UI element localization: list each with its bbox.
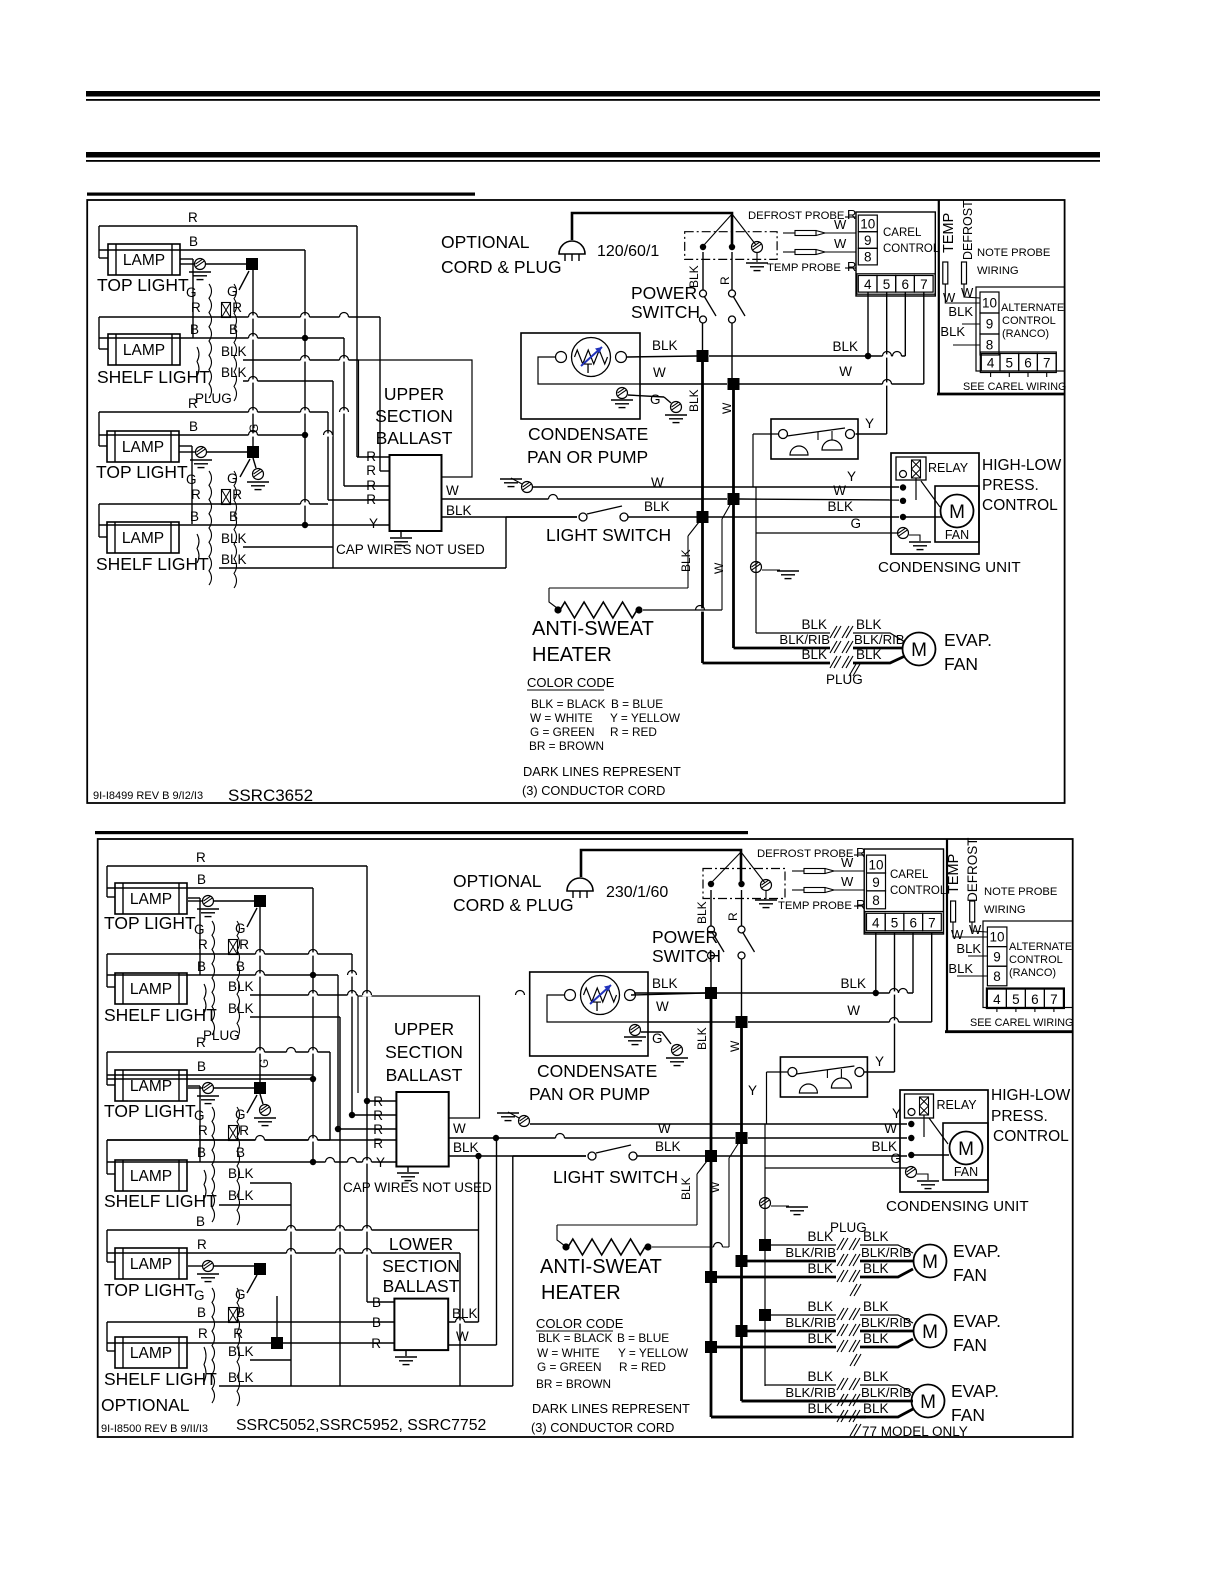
ground screw at lamp1: [180, 263, 194, 265]
svg-text:BLK: BLK: [221, 552, 247, 567]
cord wire from plug: [572, 213, 732, 244]
alt probe wires d2: [953, 922, 987, 937]
wire G diagonal lamp9: [247, 1275, 257, 1293]
lamp10 leads: [106, 1322, 108, 1351]
svg-text:10: 10: [989, 930, 1004, 945]
svg-text:CAP WIRES NOT USED: CAP WIRES NOT USED: [343, 1180, 492, 1195]
evap fan wire segments right: [860, 1315, 913, 1323]
junction square W light row: [728, 493, 740, 505]
svg-text:77 MODEL ONLY: 77 MODEL ONLY: [862, 1424, 968, 1439]
carel control box: [856, 212, 935, 296]
junction square G bus lower: [207, 451, 247, 453]
svg-text:PLUG: PLUG: [826, 672, 863, 687]
svg-text:BLK: BLK: [863, 1261, 889, 1276]
wire G bus vertical: [252, 270, 254, 446]
bracket lamp2 BLK leads: [197, 347, 199, 376]
svg-text:SECTION: SECTION: [375, 406, 453, 426]
svg-text:TEMP PROBE: TEMP PROBE: [767, 262, 841, 274]
heater right wire: [643, 609, 722, 611]
inset box note probe wiring d2: [946, 839, 948, 1032]
wire G diagonal from square d2: [247, 1095, 257, 1113]
wire Y row to condensing d2: [530, 1123, 907, 1125]
svg-text:BLK: BLK: [453, 1140, 479, 1155]
svg-text:5: 5: [883, 277, 891, 292]
cord W vertical to evap fan: [732, 390, 735, 648]
svg-text:SHELF LIGHT: SHELF LIGHT: [96, 554, 209, 574]
bracket lamp6 BLK leads: [204, 984, 206, 1013]
svg-text:DEFROST: DEFROST: [965, 837, 980, 902]
ground screw at lamp9: [188, 1265, 202, 1267]
svg-text:G: G: [194, 1108, 205, 1123]
svg-text:9: 9: [986, 317, 994, 332]
svg-text:SHELF LIGHT: SHELF LIGHT: [104, 1005, 217, 1025]
svg-text:BALLAST: BALLAST: [383, 1276, 460, 1296]
bracket lamp10 BLK leads: [204, 1347, 206, 1382]
wire BLK light switch row: [506, 516, 577, 518]
svg-text:WIRING: WIRING: [977, 265, 1019, 277]
svg-text:B: B: [197, 1145, 206, 1160]
lamp1 leads: [98, 226, 100, 258]
svg-text:BLK: BLK: [807, 1401, 833, 1416]
svg-text:W: W: [943, 290, 956, 305]
screw in dash-dot box d2: [761, 880, 772, 891]
svg-text:W: W: [712, 562, 726, 574]
svg-text:BR = BROWN: BR = BROWN: [529, 739, 604, 753]
cord plug symbol d2: [567, 878, 593, 891]
svg-text:BLK: BLK: [948, 961, 973, 976]
svg-text:Y: Y: [875, 1054, 884, 1069]
svg-text:B: B: [236, 959, 245, 974]
plug break marks: [837, 1378, 844, 1390]
screw below square d2: [260, 1094, 263, 1104]
junction square G bus top: [206, 263, 246, 265]
svg-text:7: 7: [920, 277, 928, 292]
plug wavy bracket pair1 right: [234, 284, 237, 401]
wire BLK3 vertical d2: [290, 1183, 292, 1386]
svg-text:BLK: BLK: [644, 499, 670, 514]
svg-text:PLUG: PLUG: [203, 1028, 240, 1043]
lamp L5 TOP LIGHT d2: [115, 883, 187, 914]
svg-text:5: 5: [891, 915, 899, 930]
temp probe element d2: [951, 901, 956, 922]
condensing fan motor M d2: [950, 1132, 983, 1165]
svg-text:BLK: BLK: [228, 979, 254, 994]
ballast U1 box: [390, 455, 442, 531]
carel terminals 4 5 6 7: [857, 274, 935, 294]
svg-text:R: R: [233, 1326, 243, 1341]
plug wavy bracket pair1 left: [209, 284, 212, 398]
power switch pole 2: [731, 252, 733, 290]
fuse symbol R lamp8: [229, 1126, 238, 1141]
svg-text:NOTE PROBE: NOTE PROBE: [977, 247, 1050, 259]
svg-text:FAN: FAN: [954, 1165, 978, 1179]
svg-text:TOP LIGHT: TOP LIGHT: [96, 462, 188, 482]
ground under dash-dot box d2: [765, 891, 767, 899]
svg-text:LAMP: LAMP: [123, 252, 165, 269]
svg-text:G: G: [186, 285, 197, 300]
condensing fan box d2: [943, 1123, 988, 1180]
evap fan motor: [903, 633, 936, 666]
anti-sweat heater element: [554, 606, 561, 613]
ballast U3 box: [394, 1299, 448, 1351]
svg-text:BLK/RIB: BLK/RIB: [861, 1245, 912, 1260]
wire carel-6 to BLK row d2: [912, 932, 914, 993]
wire G row to condensing: [756, 532, 899, 534]
wire BLK main row d2: [710, 959, 712, 987]
alternate control outline d2: [983, 921, 1073, 1008]
condensing ground screw: [898, 528, 909, 539]
svg-text:G: G: [247, 424, 261, 433]
alternate terminals 4 5 6 7 d2: [986, 988, 1064, 1009]
svg-text:B: B: [190, 509, 199, 524]
svg-text:6: 6: [909, 915, 917, 930]
svg-text:LAMP: LAMP: [122, 439, 164, 456]
svg-text:LIGHT SWITCH: LIGHT SWITCH: [553, 1167, 678, 1187]
svg-text:7: 7: [1043, 356, 1051, 371]
ground screw at lamp3: [179, 451, 195, 453]
cord W vertical to evap fans d2: [740, 1028, 743, 1401]
svg-text:6: 6: [1024, 356, 1032, 371]
svg-text:CONDENSATE: CONDENSATE: [537, 1061, 657, 1081]
svg-text:FAN: FAN: [945, 528, 969, 542]
ground at G vertical d2: [771, 1205, 789, 1207]
svg-text:BLK: BLK: [228, 1370, 254, 1385]
svg-text:W: W: [969, 922, 982, 937]
junction square BLK light row: [697, 511, 709, 523]
wire R2 vertical: [379, 317, 381, 471]
svg-text:230/1/60: 230/1/60: [606, 884, 668, 901]
svg-text:4: 4: [993, 992, 1001, 1007]
wire W main to condensing: [739, 499, 899, 500]
svg-text:B: B: [197, 959, 206, 974]
G termination screw: [671, 402, 682, 413]
svg-text:9I-I8499 REV B 9/I2/I3: 9I-I8499 REV B 9/I2/I3: [93, 790, 203, 802]
svg-text:TEMP PROBE: TEMP PROBE: [778, 900, 852, 912]
svg-text:DEFROST PROBE: DEFROST PROBE: [757, 848, 854, 860]
wire B2 vertical d2: [337, 975, 339, 1129]
svg-text:LAMP: LAMP: [130, 1256, 172, 1273]
svg-text:W: W: [834, 236, 847, 251]
svg-text:TEMP: TEMP: [941, 213, 957, 253]
junction square G bus d2 lower: [214, 1087, 254, 1089]
svg-text:COLOR CODE: COLOR CODE: [527, 675, 615, 690]
defrost probe element d2: [970, 901, 975, 922]
probe wires into control: [825, 232, 856, 234]
svg-text:R = RED: R = RED: [610, 725, 657, 739]
wire carel-4 to BLK d2: [875, 932, 877, 993]
svg-text:W: W: [453, 1121, 466, 1136]
svg-text:BLK/RIB: BLK/RIB: [785, 1245, 836, 1260]
condensate pan box: [521, 333, 640, 419]
svg-text:BLK = BLACK: BLK = BLACK: [531, 697, 606, 711]
svg-text:Y: Y: [748, 1083, 757, 1098]
svg-text:TOP LIGHT: TOP LIGHT: [104, 1280, 196, 1300]
svg-text:5: 5: [1006, 356, 1014, 371]
condensate pan box d2: [530, 972, 648, 1056]
svg-text:FAN: FAN: [953, 1335, 987, 1355]
svg-text:SWITCH: SWITCH: [631, 302, 700, 322]
svg-text:R: R: [232, 487, 242, 502]
svg-text:G: G: [235, 921, 246, 936]
evap fan motor: [914, 1315, 947, 1348]
carel terminals 10 9 8: [858, 215, 877, 232]
lamp L6 SHELF LIGHT d2: [115, 973, 187, 1004]
svg-text:WIRING: WIRING: [984, 904, 1026, 916]
svg-text:BLK = BLACK: BLK = BLACK: [538, 1331, 613, 1345]
alternate terminals 10 9 8 d2: [987, 927, 1007, 947]
svg-text:5: 5: [1012, 992, 1020, 1007]
svg-text:R: R: [718, 276, 732, 285]
svg-text:10: 10: [982, 296, 997, 311]
power switch pole 1: [702, 252, 704, 290]
svg-text:6: 6: [901, 277, 909, 292]
condensing unit box: [891, 453, 979, 554]
svg-text:CONTROL: CONTROL: [993, 1128, 1069, 1145]
plug wavy bracket d2 pair1: [212, 921, 215, 1035]
lamp L7 TOP LIGHT d2: [115, 1070, 187, 1101]
diagram 2 heading bar: [95, 831, 748, 834]
wire bus riser to light row d2: [512, 1156, 514, 1386]
svg-text:BLK: BLK: [807, 1261, 833, 1276]
svg-text:9: 9: [993, 949, 1001, 964]
wire G vertical branch d2: [764, 1124, 766, 1386]
svg-text:W: W: [833, 483, 846, 498]
svg-text:M: M: [922, 1252, 938, 1273]
svg-text:10: 10: [860, 216, 875, 231]
svg-text:G: G: [235, 1107, 246, 1122]
lamp L10 SHELF LIGHT OPTIONAL d2: [115, 1337, 187, 1368]
wire G diagonal from square2: [240, 459, 250, 477]
thin BLK branch to heater: [688, 522, 699, 536]
svg-text:W: W: [653, 365, 666, 380]
svg-text:BLK: BLK: [940, 324, 965, 339]
svg-text:M: M: [920, 1392, 936, 1413]
high-low pressure switch d2: [780, 1057, 867, 1097]
svg-text:DARK LINES REPRESENT: DARK LINES REPRESENT: [523, 764, 681, 779]
svg-text:LAMP: LAMP: [130, 1168, 172, 1185]
svg-text:ALTERNATE: ALTERNATE: [1009, 941, 1072, 953]
wire BLK light switch row d2: [513, 1155, 586, 1157]
condensate ground screw: [617, 388, 628, 399]
condensing fan box: [935, 486, 979, 542]
svg-text:R: R: [196, 850, 206, 865]
lamp L9 TOP LIGHT d2: [115, 1248, 187, 1279]
svg-text:BLK: BLK: [221, 344, 247, 359]
svg-text:4: 4: [872, 915, 880, 930]
svg-text:SHELF LIGHT: SHELF LIGHT: [104, 1191, 217, 1211]
svg-text:R: R: [373, 1136, 383, 1151]
svg-text:R: R: [188, 210, 198, 225]
svg-text:BLK: BLK: [863, 1299, 889, 1314]
ballast U3 input stub: [367, 1301, 394, 1303]
svg-text:CONTROL: CONTROL: [890, 885, 947, 897]
svg-text:B: B: [372, 1315, 381, 1330]
svg-text:G = GREEN: G = GREEN: [530, 725, 595, 739]
svg-text:T: T: [584, 360, 593, 376]
svg-text:DEFROST: DEFROST: [961, 200, 975, 260]
svg-text:EVAP.: EVAP.: [951, 1381, 999, 1401]
svg-text:POWER: POWER: [652, 927, 718, 947]
svg-text:PRESS.: PRESS.: [982, 477, 1039, 494]
svg-text:CAREL: CAREL: [883, 227, 922, 239]
wire BLK to fan motor: [906, 516, 941, 518]
screw on G vertical d2: [760, 1198, 771, 1209]
svg-text:R: R: [239, 1123, 249, 1138]
wire crossing bumps d2: [890, 991, 899, 994]
plug wavy bracket pair2 right: [234, 471, 237, 588]
wire G diagonal d2: [247, 908, 257, 927]
svg-text:DEFROST PROBE: DEFROST PROBE: [748, 210, 845, 222]
svg-text:COLOR CODE: COLOR CODE: [536, 1316, 624, 1331]
svg-text:R: R: [188, 396, 198, 411]
svg-text:B = BLUE: B = BLUE: [611, 697, 663, 711]
svg-text:W: W: [951, 927, 964, 942]
wire BLK bus riser to light switch: [505, 517, 507, 568]
svg-text:120/60/1: 120/60/1: [597, 243, 659, 260]
wire R4 row d2: [107, 1139, 330, 1141]
svg-text:R: R: [197, 1237, 207, 1252]
svg-text:R: R: [191, 487, 201, 502]
thin BLK branch to heater d2: [697, 1161, 707, 1174]
svg-text:BLK: BLK: [687, 389, 701, 412]
svg-text:9: 9: [864, 233, 872, 248]
ballast enclosure box: [359, 360, 473, 477]
svg-text:B: B: [189, 419, 198, 434]
svg-text:BLK: BLK: [221, 365, 247, 380]
svg-text:BLK: BLK: [863, 1229, 889, 1244]
lamp1 right lead to rows below: [192, 259, 194, 338]
plug break marks: [837, 1308, 844, 1320]
defrost probe symbol: [783, 232, 795, 234]
svg-text:R: R: [191, 300, 201, 315]
cord fan-out diagonals d2: [712, 852, 741, 882]
evap fan cord rows: [765, 1384, 836, 1386]
junction square W power: [728, 378, 740, 390]
svg-text:TOP LIGHT: TOP LIGHT: [104, 1101, 196, 1121]
cord plug symbol: [559, 241, 585, 254]
evap fan motor: [914, 1245, 947, 1278]
screw on G vertical: [751, 562, 762, 573]
plug break marks: [837, 1238, 844, 1250]
svg-text:Y = YELLOW: Y = YELLOW: [610, 711, 681, 725]
svg-text:TOP LIGHT: TOP LIGHT: [97, 275, 189, 295]
page second double rule: [86, 152, 1100, 158]
svg-text:BLK/RIB: BLK/RIB: [779, 632, 830, 647]
svg-text:(RANCO): (RANCO): [1009, 967, 1056, 979]
svg-text:BLK: BLK: [655, 1139, 681, 1154]
svg-text:R: R: [847, 259, 856, 274]
svg-text:Y: Y: [369, 516, 378, 531]
svg-text:BLK: BLK: [687, 265, 701, 288]
svg-text:BLK: BLK: [221, 531, 247, 546]
lamp9 leads: [106, 1230, 108, 1262]
junction square G bus d2 top: [214, 900, 254, 902]
wire G vertical branch: [755, 487, 757, 633]
svg-text:M: M: [922, 1322, 938, 1343]
wire B3 row end d2: [107, 1078, 313, 1080]
svg-text:BLK: BLK: [652, 976, 678, 991]
wire R2 vertical d2: [351, 954, 353, 1115]
svg-text:B = BLUE: B = BLUE: [617, 1331, 669, 1345]
wire R3 vertical d2: [329, 1052, 331, 1140]
condensate ground screw d2: [630, 1025, 641, 1036]
fuse symbol R lamp6: [229, 940, 238, 955]
svg-text:DARK LINES REPRESENT: DARK LINES REPRESENT: [532, 1401, 690, 1416]
wire BLK to light switch d2: [479, 1155, 587, 1157]
svg-text:8: 8: [872, 893, 880, 908]
svg-text:LAMP: LAMP: [130, 1345, 172, 1362]
ground screw at lamp5: [188, 900, 202, 902]
high-low pressure switch: [771, 419, 858, 459]
svg-text:HEATER: HEATER: [532, 644, 612, 666]
carel control box d2: [864, 849, 943, 934]
ground at G vertical: [762, 569, 780, 571]
svg-text:BLK/RIB: BLK/RIB: [785, 1315, 836, 1330]
evap fan motor: [912, 1385, 945, 1418]
alt terminal stubs: [990, 373, 992, 378]
temp probe element: [943, 262, 948, 284]
condensing unit box d2: [900, 1090, 988, 1192]
svg-text:LAMP: LAMP: [122, 530, 164, 547]
screw in dash-dot box: [752, 242, 763, 253]
svg-text:LAMP: LAMP: [130, 1078, 172, 1095]
wire BLK2 vertical d2: [339, 1017, 341, 1386]
svg-text:HIGH-LOW: HIGH-LOW: [991, 1087, 1071, 1104]
svg-text:Y = YELLOW: Y = YELLOW: [618, 1346, 689, 1360]
lamp5 leads: [106, 866, 108, 897]
svg-text:R: R: [366, 449, 376, 464]
svg-text:FAN: FAN: [953, 1265, 987, 1285]
junction square W light row d2: [736, 1132, 748, 1144]
svg-text:LAMP: LAMP: [130, 891, 172, 908]
condensing ground screw d2: [906, 1167, 917, 1178]
svg-text:W: W: [847, 1003, 860, 1018]
svg-text:SECTION: SECTION: [385, 1042, 463, 1062]
lamp4 leads: [98, 504, 100, 537]
junction square lamp9: [214, 1265, 254, 1267]
G termination screw d2: [672, 1045, 683, 1056]
page top double rule: [86, 91, 1100, 97]
cord BLK vertical to evap fan: [701, 362, 704, 663]
svg-text:RELAY: RELAY: [928, 461, 969, 475]
svg-text:ALTERNATE: ALTERNATE: [1001, 302, 1064, 314]
svg-text:ANTI-SWEAT: ANTI-SWEAT: [540, 1256, 662, 1278]
svg-text:OPTIONAL: OPTIONAL: [101, 1395, 190, 1415]
svg-text:W = WHITE: W = WHITE: [537, 1346, 600, 1360]
svg-text:G: G: [186, 472, 197, 487]
wire BLK main row: [702, 323, 704, 350]
alternate terminals 10 9 8: [980, 292, 999, 313]
svg-text:W: W: [961, 285, 974, 300]
svg-text:W: W: [841, 874, 854, 889]
lamp7 leads: [106, 1052, 108, 1085]
svg-text:W: W: [884, 1121, 897, 1136]
wire W main row: [731, 323, 733, 378]
thermostat left loop: [538, 357, 640, 384]
svg-text:9I-I8500 REV B 9/II/I3: 9I-I8500 REV B 9/II/I3: [101, 1423, 208, 1435]
svg-text:OPTIONAL: OPTIONAL: [453, 871, 542, 891]
wire high-low to Y row d2: [767, 1071, 789, 1073]
relay: [896, 457, 926, 480]
wire R1 vertical: [356, 226, 358, 457]
svg-text:R: R: [366, 463, 376, 478]
svg-text:BLK: BLK: [807, 1331, 833, 1346]
svg-text:NOTE PROBE: NOTE PROBE: [984, 886, 1057, 898]
lamp L1 TOP LIGHT (upper section): [108, 244, 180, 275]
svg-text:LAMP: LAMP: [130, 981, 172, 998]
thin W branch to heater d2: [729, 1144, 738, 1158]
svg-text:BLK: BLK: [863, 1369, 889, 1384]
